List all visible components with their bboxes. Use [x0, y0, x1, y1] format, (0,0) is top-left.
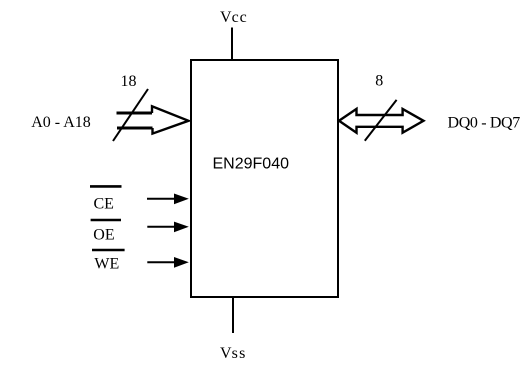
svg-text:8: 8 — [375, 72, 383, 89]
OE overbar — [91, 219, 121, 222]
CE input arrowhead — [174, 194, 189, 205]
chip U1 EN29F040 body — [191, 60, 338, 297]
svg-text:OE: OE — [93, 227, 114, 244]
svg-text:18: 18 — [121, 73, 137, 90]
svg-text:A0 - A18: A0 - A18 — [31, 114, 91, 131]
WE input wire — [147, 261, 176, 263]
svg-text:EN29F040: EN29F040 — [213, 156, 290, 173]
bus width slash on address bus — [113, 89, 148, 141]
OE input arrowhead — [174, 222, 189, 233]
CE overbar — [90, 185, 122, 188]
Vcc pin lead wire — [231, 28, 233, 60]
svg-text:DQ0 - DQ7: DQ0 - DQ7 — [448, 115, 521, 132]
svg-text:WE: WE — [94, 255, 119, 272]
WE input arrowhead — [174, 257, 189, 268]
svg-text:Vcc: Vcc — [220, 9, 248, 26]
address bus block arrow A0-A18 into pin side — [117, 106, 189, 133]
Vss pin lead wire — [232, 297, 234, 333]
bus width slash on data bus — [365, 100, 397, 141]
CE input wire — [147, 198, 176, 200]
svg-text:CE: CE — [94, 195, 114, 212]
bidirectional data bus block arrow DQ0-DQ7 — [339, 109, 424, 133]
WE overbar — [92, 249, 125, 252]
svg-text:Vss: Vss — [220, 345, 247, 362]
OE input wire — [147, 226, 176, 228]
